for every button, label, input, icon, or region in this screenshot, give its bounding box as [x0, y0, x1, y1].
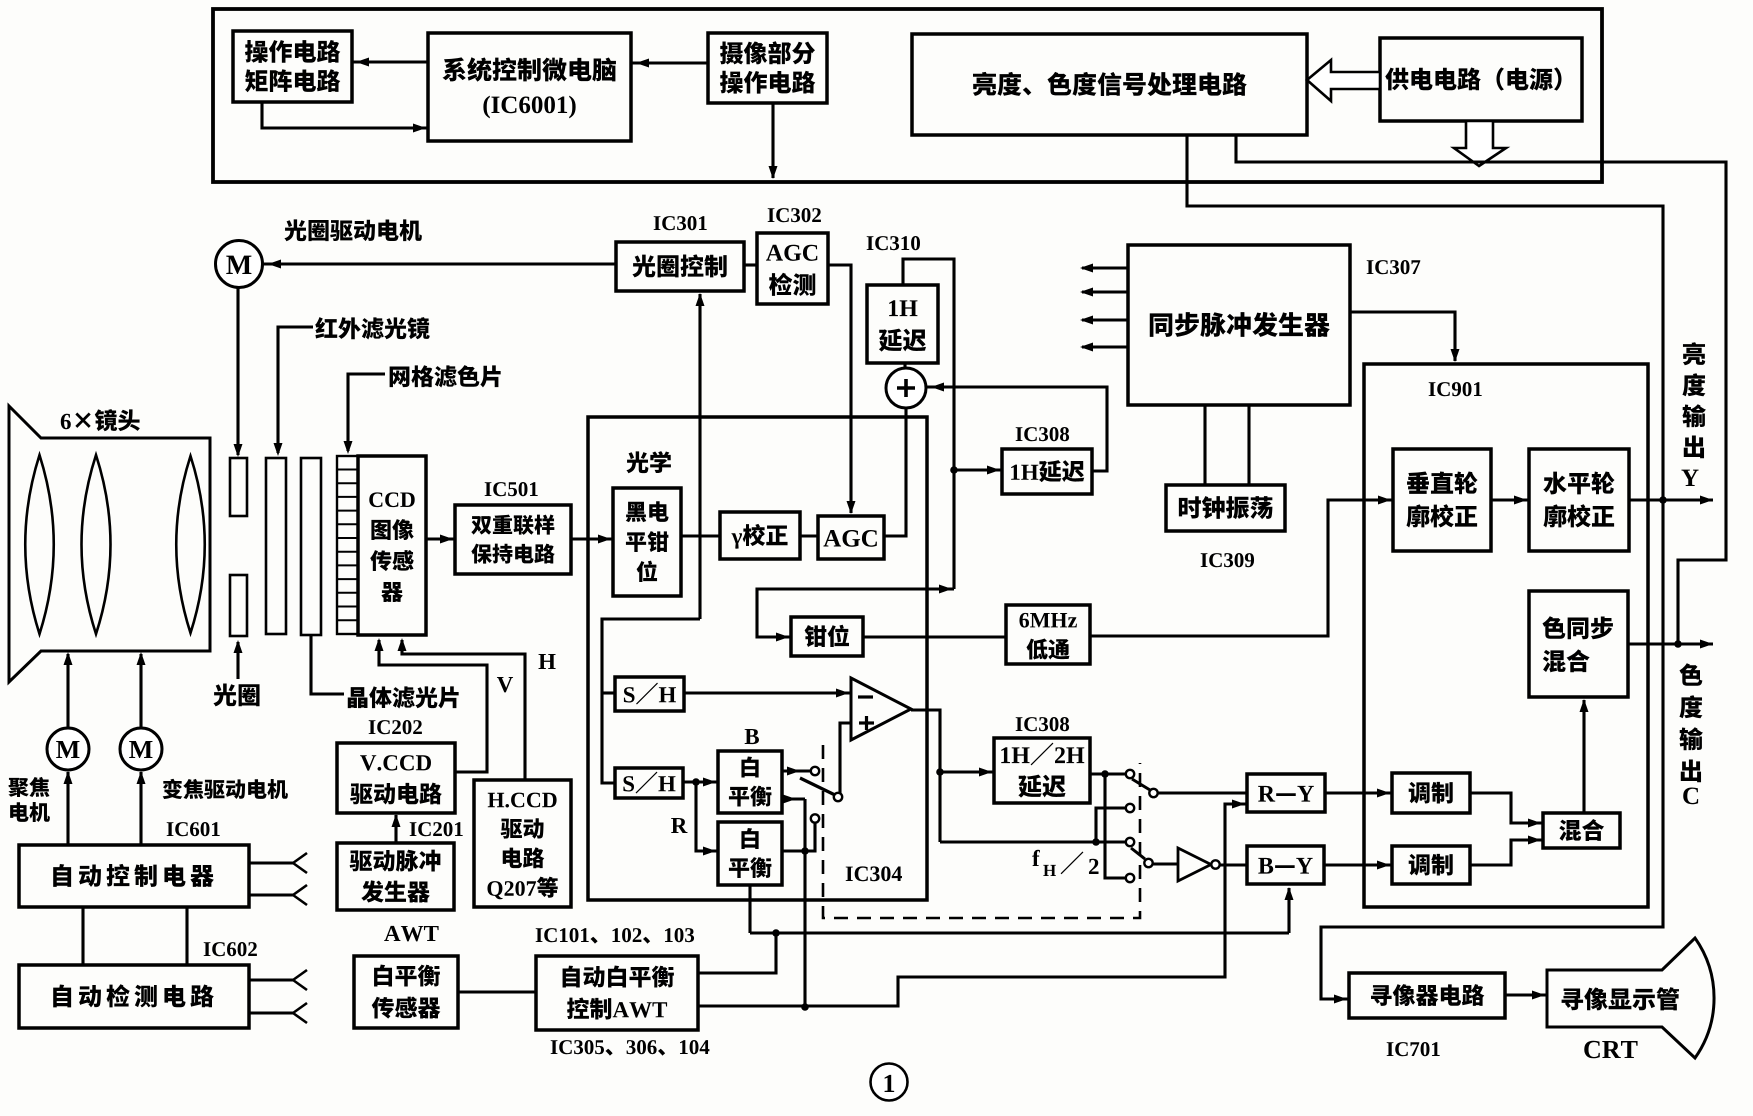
label IC308 lower — [1016, 717, 1023, 731]
wire: AGC out up to summer — [884, 408, 906, 536]
wire: switch to buffer — [1152, 862, 1178, 865]
wire: processing box to Y output rail and viewfinder — [1187, 135, 1663, 999]
label IC601 — [167, 822, 174, 836]
label: zoom drive motor — [163, 779, 183, 799]
wire: 6MHz LPF to vertical contour — [1090, 500, 1393, 636]
lens element 1 — [25, 455, 54, 634]
wire: matrix to microcomputer lower — [262, 102, 428, 128]
label IC202 — [369, 720, 376, 734]
wire: mixer to color sync mixer — [1582, 700, 1585, 813]
leader: IR filter — [278, 327, 313, 453]
sync outputs left arrows — [1082, 266, 1128, 269]
block: clock oscillator IC309 — [1166, 485, 1285, 531]
wire: WB R output to switch contact — [782, 823, 815, 851]
block: CCD image sensor — [358, 456, 426, 635]
leader: crystal filter — [311, 635, 344, 694]
label: iris — [213, 683, 236, 706]
crystal filter plate — [301, 458, 321, 635]
block: automatic control circuit IC601 — [19, 845, 249, 907]
wire: summer right to IC308 loop — [927, 387, 1107, 471]
wire: iris control to motor — [263, 262, 616, 265]
wire: focus motor to lens — [66, 654, 69, 728]
wire: motor to iris — [236, 288, 239, 455]
wire: clamp to gamma — [681, 534, 720, 537]
wire: video feedback to iris control and S/H feed — [698, 294, 701, 619]
block: white balance B — [718, 751, 782, 813]
block: modulator 1 — [1392, 773, 1470, 813]
block: camera section operation circuit — [708, 33, 827, 103]
wire: sync gen to IC901 — [1350, 312, 1455, 361]
wire: matrix to microcomputer upper — [352, 60, 428, 63]
wire: C output — [1628, 642, 1713, 645]
wires: sync gen to clock osc — [1203, 405, 1206, 485]
block: auto white balance control AWT — [536, 956, 698, 1030]
label: 6x lens — [61, 414, 71, 429]
label IC602 — [204, 942, 211, 956]
block: AGC detection IC302 — [757, 233, 828, 304]
block: S/H upper — [615, 677, 684, 711]
grid color filter — [337, 456, 358, 634]
wire: WB sensor to AWB control — [458, 990, 536, 993]
wire: CCD to IC501 — [426, 537, 455, 540]
wire: IC501 to black level clamp — [571, 537, 613, 540]
label V — [497, 677, 513, 692]
block: white balance R — [718, 822, 782, 885]
label IC304 — [846, 867, 853, 881]
switch contacts fH/2 — [1126, 770, 1134, 778]
wire: 1H delay to summer — [903, 363, 906, 368]
external input forks of detection circuit — [249, 978, 293, 981]
big box IC101-103 signal processing — [588, 417, 927, 900]
block: horizontal contour correction — [1529, 449, 1629, 551]
wire: microcomputer to camera-op — [631, 61, 708, 64]
wire: Y output — [1629, 498, 1713, 501]
CRT shape — [1547, 938, 1714, 1058]
label CRT — [1584, 1041, 1600, 1058]
wire: pulse generator to V drive — [394, 815, 397, 843]
wire: WB B lower port — [782, 797, 805, 800]
wire: clamp to 6MHz LPF — [863, 635, 1006, 638]
wire: iris control to AGC det — [744, 263, 757, 266]
block: system control microcomputer IC6001 — [428, 33, 631, 141]
wire: op-amp plus input from switch — [840, 723, 851, 793]
outer box of camera control section — [213, 9, 1602, 182]
block: gamma correction — [720, 512, 800, 559]
lens element 3 — [176, 456, 205, 633]
wire: WB R bottom to bus — [748, 885, 751, 933]
wire: switch to R-Y — [1157, 791, 1247, 794]
label: focus motor — [8, 778, 28, 797]
label R — [671, 818, 687, 833]
wire: tap bottom to clamp — [757, 589, 954, 637]
block: B-Y — [1247, 846, 1324, 884]
block: power supply circuit — [1380, 38, 1582, 121]
block: operation circuit / matrix circuit — [233, 31, 352, 102]
block: modulator 2 — [1392, 846, 1470, 884]
hollow arrow: power to signal processing — [1307, 60, 1380, 101]
lens body — [9, 406, 210, 682]
vertical tap line — [952, 386, 955, 589]
op-amp comparator — [851, 678, 911, 740]
wire: to 1H/2H delay — [940, 770, 994, 773]
figure number 1 — [871, 1064, 908, 1101]
label: iris drive motor — [284, 219, 306, 241]
motor M focus — [47, 728, 89, 770]
wire: control to zoom motor — [139, 772, 142, 845]
wire: modulator2 to mixer — [1470, 840, 1543, 865]
iris blades — [230, 458, 247, 516]
wire: op-amp output — [911, 710, 940, 842]
wire: control to focus motor — [66, 772, 69, 845]
buffer amp — [1178, 848, 1211, 881]
label IC308 upper — [1016, 427, 1023, 441]
wire: H drive to CCD — [402, 640, 525, 780]
hollow arrow: power supply down — [1454, 121, 1506, 166]
label: crystal filter — [348, 687, 368, 708]
wire: processing box to C output rail — [1236, 135, 1726, 644]
label: chroma output C — [1679, 663, 1702, 686]
motor M zoom — [120, 728, 162, 770]
label IC201 — [410, 822, 417, 836]
motor M iris — [216, 241, 263, 288]
wire: tap to IC308 1H delay — [954, 468, 1002, 471]
summing node + — [886, 368, 926, 408]
box IC901 — [1364, 364, 1648, 907]
wire: S/H to WB B and R — [683, 780, 718, 783]
label IC302 — [768, 208, 775, 222]
IR cut filter — [266, 458, 286, 634]
block: 1H delay IC310 — [867, 285, 938, 363]
switch lever lower — [1131, 848, 1145, 859]
wire: vertical to horizontal contour — [1491, 498, 1529, 501]
block: iris control IC301 — [616, 242, 744, 291]
wire: V drive to CCD — [379, 640, 487, 772]
wire: R-Y to modulator1 — [1325, 791, 1392, 794]
switch lever upper — [1132, 779, 1150, 790]
external input forks of control circuit — [249, 861, 293, 864]
block: optical black level clamp — [613, 488, 681, 596]
label AWT — [384, 926, 400, 941]
wire: AGC det down to AGC — [828, 265, 851, 513]
block: AGC — [818, 516, 884, 559]
block: 1H delay IC308 — [1002, 449, 1092, 494]
wire: WB B upper output to switch contact — [782, 769, 811, 772]
leader: grid color filter — [348, 374, 385, 451]
block: S/H lower — [615, 768, 683, 798]
label IC309 — [1201, 553, 1208, 567]
label: grid color filter — [390, 367, 410, 388]
block: white balance sensor — [354, 956, 458, 1028]
block: sync pulse generator IC307 — [1128, 245, 1350, 405]
label: IR cut filter — [315, 317, 337, 338]
wires: between control and detection — [81, 907, 84, 965]
wire: 1H/2H delay output to switch — [1090, 772, 1126, 775]
wire: zoom motor to lens — [139, 654, 142, 728]
wire: buffer to B-Y — [1220, 863, 1247, 866]
block: automatic detection circuit IC602 — [19, 965, 249, 1028]
block: luminance/chrominance signal processing circuit — [912, 34, 1307, 135]
label: optical — [626, 451, 648, 473]
block: viewfinder circuit IC701 — [1349, 973, 1505, 1018]
label fH/2 — [1032, 850, 1040, 866]
leader: iris label — [236, 642, 239, 679]
dashed boundary IC304 — [823, 745, 1140, 918]
wire: S/H to op-amp minus — [684, 691, 851, 694]
block: R-Y — [1247, 774, 1325, 812]
wire: camera-op down to bus — [771, 103, 774, 178]
label B — [745, 729, 759, 744]
label IC701 — [1387, 1042, 1394, 1056]
wire: gamma to AGC — [800, 534, 818, 537]
block: correlated double sampling hold circuit IC501 — [455, 505, 571, 574]
label IC101 102 103 — [536, 928, 543, 942]
wire: AWB lower to R-Y — [698, 804, 1247, 1006]
switch lever WB — [800, 778, 835, 795]
lens element 2 — [82, 455, 111, 634]
label IC501 — [485, 482, 492, 496]
block: 6MHz low pass — [1006, 605, 1090, 664]
label H — [538, 654, 555, 669]
label IC901 — [1429, 382, 1436, 396]
block: 1H/2H delay IC308 — [994, 738, 1090, 803]
block: color sync mixer — [1529, 591, 1628, 697]
label IC310 — [867, 236, 874, 250]
block: V.CCD drive circuit IC202 — [337, 743, 455, 813]
label IC307 — [1367, 260, 1374, 274]
wire: AWB control riser — [803, 799, 806, 1007]
block: vertical contour correction — [1393, 449, 1491, 551]
label: luminance output Y — [1683, 342, 1705, 365]
block: drive pulse generator IC201 — [337, 843, 454, 910]
wire: modulator1 to mixer — [1470, 793, 1543, 823]
label: viewfinder display tube — [1562, 988, 1584, 1010]
block: clamp — [791, 617, 863, 656]
block: mixer — [1543, 813, 1620, 848]
label IC301 — [654, 216, 661, 230]
wire: tap to 1H delay input — [903, 259, 954, 386]
wire: B-Y to modulator2 — [1324, 863, 1392, 866]
wire: viewfinder circuit to CRT — [1505, 993, 1547, 996]
wire: AWB to bus and B-Y — [750, 931, 1289, 934]
block: H.CCD drive circuit Q207 — [474, 780, 571, 907]
label IC305 306 104 — [551, 1040, 558, 1054]
wire: bypass to switch — [940, 840, 1126, 843]
